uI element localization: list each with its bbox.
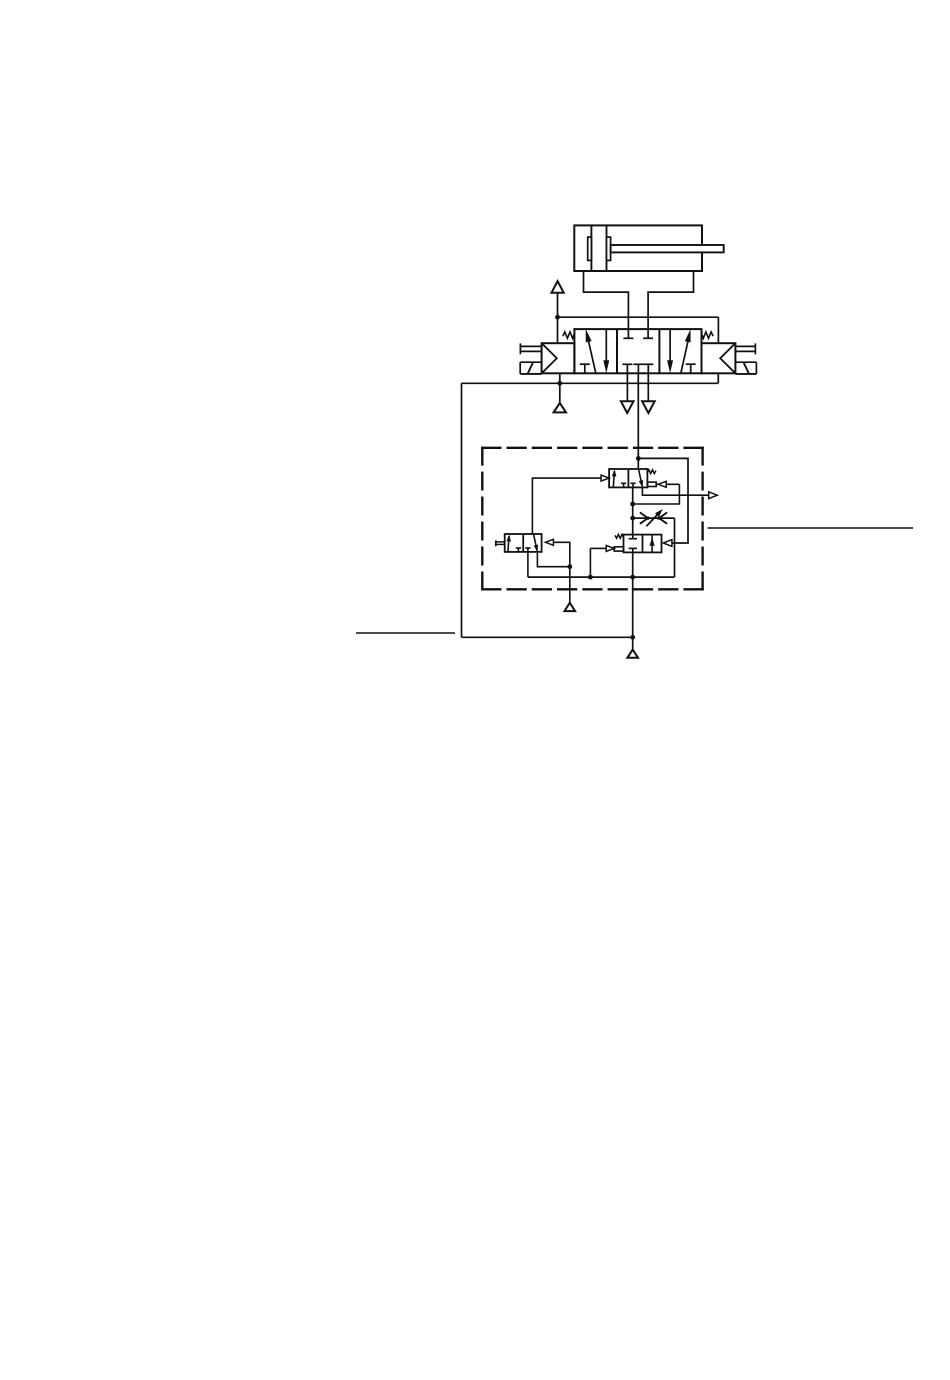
wire: branch from supply node to 2V3 right pilot (top run)	[638, 458, 688, 543]
valve 2V3 left box blocked port bottom	[629, 548, 637, 552]
valve 2V1 body divider	[627, 469, 629, 487]
valve 2V1 right box blocked port	[630, 483, 635, 487]
throttle valve (bypass) flow line	[633, 517, 675, 519]
valve 1V1 left box diagonal flow arrow 1->4	[586, 329, 596, 373]
wire: 2V2 port B down-run	[537, 552, 569, 567]
junction: throttle tap node	[630, 516, 635, 521]
wire: 2V2 port A drop to internal supply rail	[527, 552, 529, 577]
cylinder 1A1 piston rod	[611, 245, 724, 252]
wire: lower pilot rail (supply riser to right pilot bottom)	[462, 382, 719, 384]
open arrowhead into 2V1 right pilot	[658, 481, 666, 487]
valve 2V1 return spring	[647, 470, 656, 474]
junction: upper pilot rail at x=557	[555, 315, 560, 320]
valve 2V2 body divider	[522, 534, 524, 552]
exhaust triangle at port 3 (down)	[642, 401, 655, 413]
wire: valve 1V1 port 3 exhaust stub	[647, 373, 649, 401]
exhaust silencer above left pilot (triangle up)	[552, 281, 564, 293]
valve 2V1 right pilot block	[647, 482, 656, 486]
callout pointer line (right, to soft-start unit)	[708, 527, 914, 529]
valve 2V3 right box flow arrow (open)	[650, 535, 655, 553]
junction: internal supply rail at 2V3 pilot riser	[588, 575, 593, 580]
vent source triangle below enclosure (apex up)	[565, 603, 576, 611]
valve 1V1 left return spring	[563, 332, 575, 338]
valve 2V3 body (2/2-way)	[624, 535, 662, 553]
wire: 2V1 right pilot line	[656, 483, 679, 485]
valve 2V3 return spring	[615, 534, 624, 538]
wire: supply node stub to source triangle	[632, 637, 634, 649]
valve 1V1 right pilot box	[702, 343, 736, 373]
wire: 2V3 left pilot line from internal supply rail	[590, 548, 605, 577]
compressed-air source triangle (apex up)	[627, 650, 638, 658]
junction: downstream node feeds 2V1 right pilot	[630, 502, 635, 507]
wire: left pilot bottom stub	[559, 373, 561, 383]
valve 1V1 left pilot triangle	[542, 343, 557, 373]
cylinder 1A1 piston line 1	[590, 225, 592, 271]
open arrowhead on output line	[709, 492, 718, 499]
valve 1V1 body divider right	[658, 329, 660, 373]
wire: cylinder rod-end port to valve 1V1 port 2	[648, 271, 693, 329]
throttle valve adjustment arrow	[646, 509, 662, 526]
wire: upper pilot rail (left pilot top to right pilot top)	[558, 316, 719, 318]
callout pointer line (bottom-left, to supply branch)	[356, 632, 455, 634]
valve 1V1 centre box blocked port 4	[623, 329, 633, 338]
valve 1V1 left pilot box	[542, 343, 575, 373]
wire: internal supply rail	[528, 576, 675, 578]
valve 2V3 left box blocked port top	[629, 535, 637, 539]
cylinder 1A1 cushion boss right	[607, 237, 611, 260]
wire: 2V1 right pilot loop down to downstream node	[633, 484, 680, 504]
valve 1V1 left box blocked port 5	[580, 364, 590, 373]
valve 2V1 body (3/2-way)	[609, 469, 647, 487]
wire: right pilot bottom stub	[717, 373, 719, 383]
open arrowhead into 2V3 right pilot	[663, 540, 672, 547]
junction: internal supply rail at main riser	[630, 575, 635, 580]
soft-start / quick-exhaust unit enclosure (dashed box)	[481, 447, 704, 591]
wire: downstream output line leaving enclosure	[642, 487, 715, 495]
wire: valve 2V3 bottom port to supply junction below enclosure	[632, 552, 634, 637]
wire: riser to upper exhaust	[557, 293, 559, 318]
valve 2V2 left box blocked port	[516, 548, 521, 552]
valve 1V1 left box vertical flow arrow 2->3	[603, 329, 609, 373]
valve 1V1 centre box blocked port 5	[622, 364, 632, 373]
valve 1V1 left pilot port symbol (bar + twin lines)	[520, 343, 541, 354]
wire: upper pilot rail drop to left pilot top	[557, 317, 559, 343]
valve 1V1 body (5/3-way directional valve)	[574, 329, 701, 373]
valve 2V2 right box flow path 1->3	[534, 534, 539, 552]
valve 2V3 left pilot block	[614, 547, 623, 551]
valve 1V1 right pilot port symbol (bar + twin lines)	[735, 343, 755, 354]
throttle valve arcs	[640, 512, 667, 523]
cylinder 1A1 piston line 2	[606, 225, 608, 271]
junction: 2V2 feedback node	[567, 564, 572, 569]
cylinder 1A1 barrel (double-acting with cushioning)	[574, 225, 702, 271]
junction: lower pilot rail at x=560	[557, 381, 562, 386]
valve 2V2 plunger actuator	[496, 540, 505, 546]
wire: supply branch to 5/3 pilot rail riser	[462, 636, 633, 638]
valve 2V2 right box blocked port	[525, 548, 530, 552]
valve 2V1 right box flow path 1->3	[639, 469, 644, 487]
wire: throttle bypass riser to internal supply rail	[674, 518, 676, 577]
valve 2V2 left box flow arrow 1->2	[506, 534, 511, 552]
junction: main supply node	[630, 635, 635, 640]
pilot-air source triangle (apex up)	[554, 403, 566, 413]
valve 2V2 body (3/2-way)	[505, 534, 542, 552]
valve 1V1 centre box blocked port 2	[643, 329, 653, 338]
wire: pilot line from valve 2V2 to 2V1 left pilot	[532, 478, 607, 534]
valve 2V3 body divider	[642, 535, 644, 553]
valve 2V1 left box flow arrow 1->2	[612, 469, 617, 487]
wire: stub to pilot-air source triangle	[559, 383, 561, 403]
valve 2V1 left box blocked port	[621, 483, 626, 487]
valve 1V1 right box blocked port 3	[686, 364, 696, 373]
open arrowhead into 2V3 left pilot	[606, 545, 614, 551]
open arrowhead into 2V2 right pilot	[545, 539, 553, 545]
valve 1V1 centre box blocked port 3	[643, 364, 653, 373]
wire: downstream line 2V1 bottom port to throttle node	[632, 487, 634, 518]
exhaust triangle at port 5 (down)	[621, 401, 634, 413]
valve 1V1 right box diagonal flow arrow 1->2	[681, 329, 691, 373]
wire: feedback node down to vent below enclosure	[569, 567, 571, 603]
cylinder 1A1 cushion boss left	[588, 237, 592, 260]
valve 1V1 left manual override	[520, 362, 541, 374]
valve 1V1 right manual override	[735, 362, 756, 374]
wire: lower pilot rail left riser down to supply branch	[461, 383, 463, 637]
wire: feedback node up to 2V2 pilot	[548, 542, 570, 566]
wire: downstream line to valve 2V3 top port	[632, 518, 634, 535]
valve 1V1 body divider left	[616, 329, 618, 373]
valve 1V1 right box vertical flow arrow 4->5	[667, 329, 673, 373]
junction: supply node above valve 2V1	[636, 456, 641, 461]
wire: valve 1V1 port 5 exhaust stub	[626, 373, 628, 401]
valve 1V1 right pilot triangle	[720, 343, 735, 373]
valve 1V1 centre box blocked port 1	[633, 364, 643, 373]
open arrowhead into 2V1 left pilot	[601, 475, 609, 481]
valve 1V1 right return spring	[702, 332, 714, 338]
wire: cylinder cap-end port to valve 1V1 port 4	[584, 271, 629, 329]
wire: valve 1V1 port 1 supply line down into soft-start unit	[637, 373, 639, 469]
wire: upper pilot rail drop to right pilot top	[717, 317, 719, 343]
